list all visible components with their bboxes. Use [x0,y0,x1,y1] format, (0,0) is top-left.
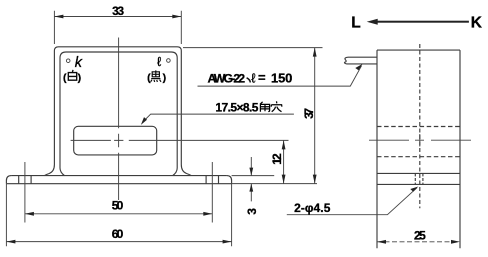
60 dim line [6,241,231,243]
33 arrows [54,15,63,19]
small circle right [167,59,171,63]
33 dim [54,11,181,44]
svg-text:17.5×8.5: 17.5×8.5 [215,100,258,114]
right view dashed hidden lines [377,127,460,157]
12 arrows [282,140,286,149]
svg-text:25: 25 [414,228,426,242]
2-phi leader arrow [410,187,418,192]
ideographic comma [247,78,251,83]
right view horizontal centerline [369,139,471,141]
vertical centerline left view [118,38,120,201]
L K arrow [367,19,378,25]
kanji ana (hole) [271,101,282,111]
svg-text:150: 150 [271,71,292,86]
square hole [74,126,157,155]
svg-text:=: = [258,70,266,85]
flange bottom extension [232,183,317,185]
3 dim arrows lines [250,157,252,201]
17.5 leader arrow [141,117,147,125]
svg-text:60: 60 [112,227,124,241]
right view vertical dashed centerline [419,44,421,208]
hidden hole lines right [206,176,218,184]
svg-text:3: 3 [245,208,259,215]
hole centerline left mount [24,162,26,223]
AWG leader arrow [355,64,362,70]
right view hidden hole dashes [415,173,423,184]
svg-text:33: 33 [112,4,124,18]
kanji kado (corner) [260,102,270,112]
body outline left view [44,47,191,176]
wire [344,57,377,64]
svg-text:L: L [351,15,360,32]
60 extension lines [6,184,231,246]
17.5 leader [142,114,294,122]
svg-text:AWG-22: AWG-22 [208,72,246,86]
right view outline [377,50,460,248]
svg-text:k: k [75,55,83,71]
flange top extension [232,175,275,177]
37 extension line [183,47,323,49]
50 dim line [25,213,212,215]
hole centerline right mount [211,162,213,223]
kanji kuro (black) [151,70,161,82]
horizontal centerline hole [71,139,289,141]
AWG leader [198,66,362,86]
svg-text:ℓ: ℓ [157,54,162,69]
kanji shiro (white) [68,70,76,80]
svg-text:ℓ: ℓ [251,71,256,86]
hidden hole lines left [19,176,31,184]
svg-text:12: 12 [270,153,284,165]
flange [6,176,231,184]
svg-text:(: ( [147,72,151,84]
25 dim line dashed [377,241,460,243]
60 arrows [6,240,15,244]
50 arrows [25,212,34,216]
25 arrows [377,240,386,244]
svg-text:): ) [78,72,82,84]
small circle left [66,59,70,63]
right view center vertical dash at cross [419,134,421,147]
svg-text:K: K [471,15,483,32]
12 dim line [283,140,285,183]
svg-text:(: ( [63,72,67,84]
svg-text:): ) [163,72,167,84]
37 arrows [313,48,317,57]
svg-text:2-φ4.5: 2-φ4.5 [294,201,331,215]
2-phi leader [287,188,417,215]
inner face rounded rect [60,52,177,176]
3 arrows [249,168,253,176]
svg-text:37: 37 [302,108,316,119]
37 dim line [314,48,316,184]
flange top edge [11,175,226,177]
svg-text:50: 50 [112,199,124,213]
